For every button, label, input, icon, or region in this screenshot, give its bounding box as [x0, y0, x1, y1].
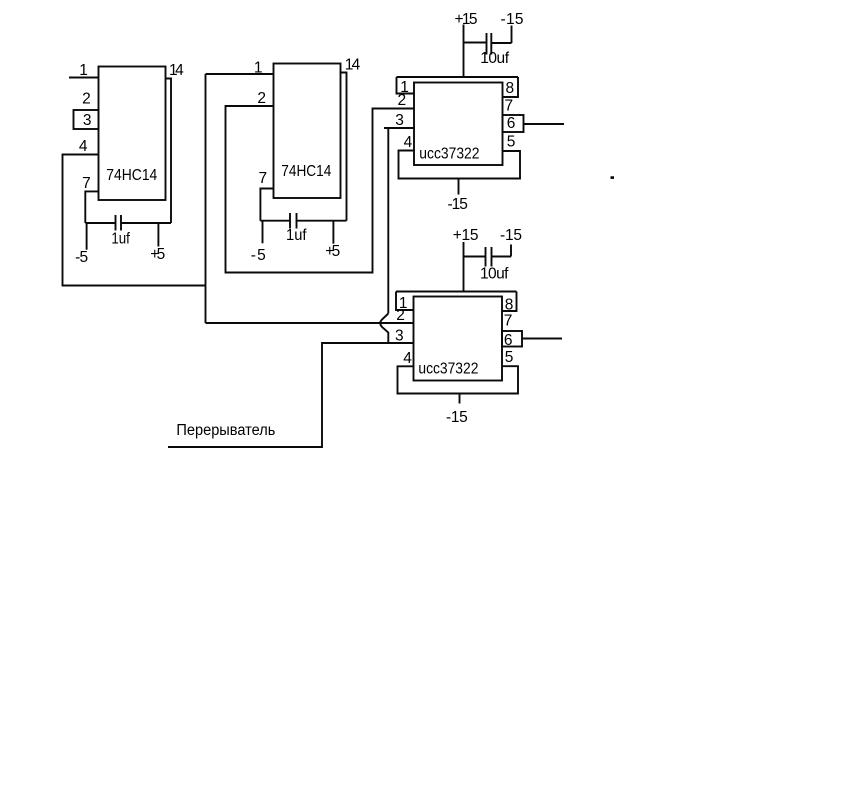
svg-text:7: 7	[504, 312, 513, 329]
svg-text:1: 1	[254, 59, 263, 76]
svg-text:+15: +15	[455, 11, 478, 28]
svg-text:3: 3	[395, 328, 404, 345]
svg-text:Перерыватель: Перерыватель	[176, 422, 275, 439]
svg-text:4: 4	[403, 350, 412, 367]
svg-text:8: 8	[505, 80, 514, 97]
svg-text:8: 8	[505, 297, 514, 314]
svg-text:ucc37322: ucc37322	[419, 146, 479, 163]
svg-text:3: 3	[83, 112, 92, 129]
svg-text:4: 4	[79, 138, 88, 155]
svg-text:10uf: 10uf	[480, 265, 509, 282]
svg-text:6: 6	[504, 332, 513, 349]
svg-text:2: 2	[397, 92, 406, 109]
svg-text:2: 2	[396, 307, 405, 324]
svg-text:-15: -15	[501, 11, 524, 28]
svg-text:7: 7	[504, 98, 513, 115]
svg-text:+5: +5	[325, 243, 340, 260]
svg-text:14: 14	[169, 62, 184, 79]
svg-text:1uf: 1uf	[111, 231, 130, 248]
svg-text:6: 6	[507, 115, 516, 132]
svg-text:+15: +15	[453, 227, 479, 244]
svg-text:+5: +5	[150, 246, 165, 263]
svg-text:7: 7	[82, 175, 91, 192]
svg-text:-15: -15	[500, 227, 522, 244]
svg-text:10uf: 10uf	[480, 50, 509, 67]
svg-text:3: 3	[395, 112, 404, 129]
svg-text:74HC14: 74HC14	[106, 167, 157, 184]
svg-text:1uf: 1uf	[286, 227, 307, 244]
svg-text:-15: -15	[446, 409, 468, 426]
svg-text:14: 14	[345, 56, 361, 73]
svg-text:-5: -5	[75, 249, 88, 266]
svg-text:4: 4	[404, 134, 413, 151]
svg-text:5: 5	[507, 134, 516, 151]
svg-text:74HC14: 74HC14	[281, 163, 331, 180]
svg-text:1: 1	[79, 62, 88, 79]
svg-text:-5: -5	[251, 247, 266, 264]
svg-text:7: 7	[258, 170, 267, 187]
svg-text:5: 5	[505, 349, 514, 366]
svg-text:ucc37322: ucc37322	[418, 361, 478, 378]
svg-text:2: 2	[82, 91, 91, 108]
svg-text:2: 2	[257, 90, 266, 107]
svg-text:-15: -15	[448, 196, 468, 213]
